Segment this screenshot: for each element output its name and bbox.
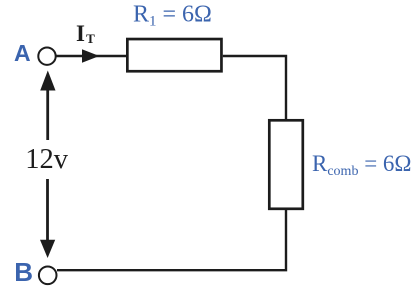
wire node A to resistor R1: [56, 55, 127, 57]
resistor R1 body: [127, 39, 221, 71]
current arrow IT head: [82, 49, 99, 63]
voltage arrow upper shaft: [46, 88, 49, 140]
node B terminal circle: [39, 267, 57, 285]
svg-text:12v: 12v: [25, 144, 69, 175]
svg-text:A: A: [14, 40, 31, 66]
wire R1 to top-right corner: [223, 56, 286, 120]
voltage arrow lower shaft: [46, 179, 49, 242]
node A terminal circle: [38, 48, 55, 65]
voltage arrow lower head (points down): [40, 240, 55, 258]
voltage arrow upper head (points up): [40, 71, 55, 91]
wire Rcomb to bottom corner: [57, 209, 286, 270]
svg-text:B: B: [14, 257, 33, 287]
svg-text:R1 = 6Ω: R1 = 6Ω: [133, 2, 212, 30]
svg-text:Rcomb = 6Ω: Rcomb = 6Ω: [312, 151, 412, 179]
resistor Rcomb body: [269, 120, 303, 209]
